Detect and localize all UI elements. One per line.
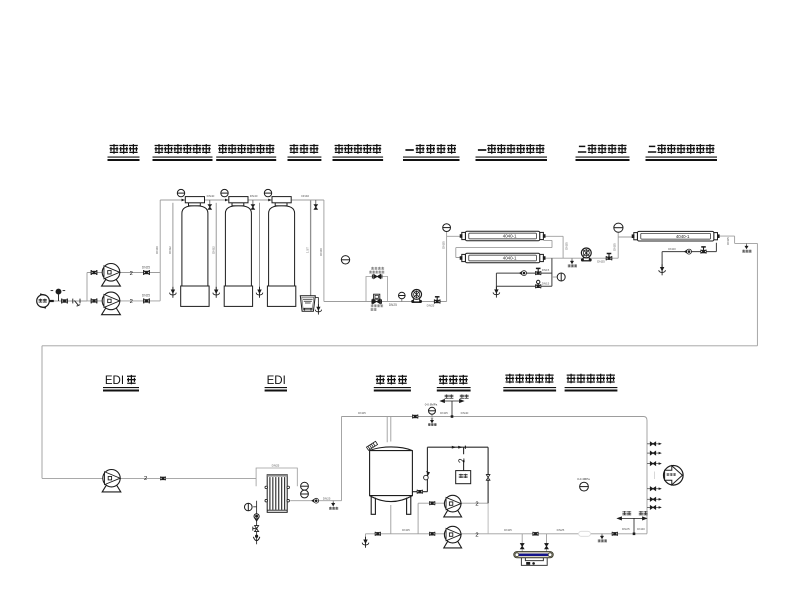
valve ozone loop right: [486, 475, 490, 481]
valve pump B suction: [91, 298, 98, 303]
label 精密过滤器: [335, 144, 344, 154]
svg-text:2: 2: [144, 476, 147, 482]
svg-text:DN40: DN40: [155, 246, 159, 254]
svg-text:DN25: DN25: [557, 528, 565, 532]
wire long return line to EDI: [42, 346, 757, 479]
sample point after UV: [601, 534, 603, 536]
junction welded/pressed 1: [451, 415, 454, 418]
pump P6 纯水泵 A: [444, 495, 462, 517]
use point symbol 用水点: [664, 466, 684, 486]
EDI gauges right pair: [301, 482, 309, 490]
pump P5 EDI泵: [102, 470, 121, 492]
svg-text:4040-1: 4040-1: [676, 234, 690, 239]
gauge RO1 feed: [443, 224, 451, 232]
pump P7 纯水泵 B: [444, 526, 462, 548]
valve P3 discharge: [435, 297, 440, 302]
svg-text:EDI: EDI: [105, 375, 124, 387]
svg-text:DN25: DN25: [427, 303, 435, 307]
svg-text:DN25: DN25: [389, 303, 397, 307]
link dash to use point: [654, 472, 656, 480]
label 纯水泵: [439, 375, 448, 385]
label 一级反渗透装置: [478, 149, 486, 151]
wire gauge stub RO1 concentrate: [552, 276, 557, 278]
label 二级反渗透装置: [648, 146, 656, 152]
sample point EDI product: [312, 498, 319, 503]
wire UV risers: [522, 534, 546, 552]
svg-text:DN40: DN40: [301, 194, 309, 198]
salt tank of softener: [300, 296, 315, 311]
svg-text:DN40: DN40: [250, 194, 258, 198]
svg-text:DN25: DN25: [622, 527, 630, 531]
flow arrow into 多介质过滤器 tank T1: [182, 199, 185, 202]
stub valve between T1-T2: [209, 200, 211, 205]
wire EDI product line: [290, 417, 341, 501]
UV sterilizer 紫外杀菌器: [514, 552, 553, 558]
svg-text:DN25: DN25: [597, 260, 605, 264]
wire RO1 vessel A permeate: [544, 236, 564, 258]
wire pump suction cross: [418, 503, 445, 534]
sample point RO2 product: [746, 243, 748, 245]
ozone injection marks: [452, 446, 463, 449]
valve tank outlet: [417, 490, 423, 494]
sample point on RO1 product: [571, 258, 573, 260]
EDI drain arrow: [253, 535, 259, 540]
pump P1 原水泵 A: [102, 264, 121, 287]
wire softener downcomer: [323, 200, 325, 302]
EDI drain needle valve: [253, 526, 259, 532]
svg-text:DN25: DN25: [323, 497, 331, 501]
wire tank top supply/return header: [342, 417, 648, 534]
valve between UV risers: [532, 532, 538, 536]
wire RO1 product line to HP pump 2: [544, 257, 619, 259]
wire riser to filters: [159, 200, 161, 301]
svg-text:DN25: DN25: [442, 241, 446, 249]
wire pump branch B: [87, 300, 160, 302]
多介质过滤器 tank T1: [181, 197, 209, 307]
gauge RO2 feed: [614, 223, 623, 232]
svg-text:DN25: DN25: [504, 528, 512, 532]
take-off branch 1: [647, 443, 659, 445]
pump P2 原水泵 B: [102, 292, 121, 315]
label 纯水箱: [376, 375, 385, 385]
svg-text:4040-1: 4040-1: [503, 256, 517, 261]
RO1 membrane vessel B: [460, 253, 545, 263]
label 一级高压泵: [405, 149, 413, 151]
label 微孔过滤器: [567, 374, 576, 384]
gauge EDI outlet: [253, 501, 256, 545]
UV control box: [521, 558, 547, 566]
wire brine suction: [310, 201, 312, 307]
wire filter feed header: [160, 199, 185, 201]
svg-text:DN20: DN20: [668, 247, 676, 251]
svg-text:DN25: DN25: [142, 265, 150, 269]
node raw water source: [37, 294, 50, 308]
valve on tank inlet header: [412, 415, 418, 419]
label 二级高压泵: [578, 146, 586, 152]
wire tank2-tank3 link: [248, 199, 272, 201]
dosing point: [51, 289, 66, 301]
wire RO1 feed riser: [447, 231, 462, 301]
EDI drain sample valve: [254, 514, 259, 521]
valve RO1 concentrate lower: [537, 283, 539, 286]
salt tank overflow arrow: [315, 304, 321, 314]
backwash drain tank T1: [172, 203, 174, 290]
valve UV riser right: [545, 544, 548, 549]
活性炭过滤器 tank T2: [224, 197, 252, 307]
softener bypass loop: [366, 277, 388, 302]
svg-text:0-0.6MPa: 0-0.6MPa: [425, 403, 438, 407]
pump P4 二级高压泵: [581, 248, 591, 261]
valve tank drain line: [375, 532, 381, 536]
wire RO2 concentrate drain: [662, 243, 716, 268]
gauge RO1 concentrate: [557, 273, 565, 281]
wire RO1 concentrate drain loop: [496, 258, 552, 290]
wire mid pressure line: [324, 301, 447, 303]
svg-text:2: 2: [475, 501, 478, 507]
svg-text:DN25: DN25: [358, 411, 366, 415]
stub valve between T2-T3: [252, 200, 254, 205]
gauge loop return: [580, 482, 589, 491]
take-off branch 4: [647, 488, 659, 490]
flow indicator RO2 drain: [685, 249, 692, 254]
take-off branch 2: [647, 452, 659, 454]
flow arrow into 活性炭过滤器 tank T2: [225, 199, 228, 202]
micro filter 微孔过滤器 (faint): [579, 531, 591, 536]
svg-text:DN15: DN15: [542, 281, 550, 285]
svg-text:DN25: DN25: [612, 243, 616, 251]
wire main line after microfilter: [591, 533, 647, 535]
softener control valve on line: [374, 294, 380, 299]
backwash drain tank T3: [259, 203, 261, 290]
svg-text:4040-1: 4040-1: [503, 234, 517, 239]
gauge after softener: [341, 256, 349, 264]
valve pump A suction: [91, 270, 98, 275]
svg-text:DN32: DN32: [168, 246, 172, 254]
bypass valve: [374, 274, 381, 278]
RO2 membrane vessel C: [632, 231, 719, 241]
wire tank1-tank2 link: [205, 199, 229, 201]
svg-text:2: 2: [130, 271, 133, 277]
svg-text:DN25: DN25: [565, 242, 569, 250]
stub valve after T3: [315, 200, 317, 205]
wire brine overflow: [315, 297, 318, 307]
label 原水泵: [110, 144, 119, 154]
svg-text:DN40: DN40: [461, 411, 469, 415]
svg-text:DN40: DN40: [319, 248, 323, 256]
valve pure pump A suction: [429, 501, 435, 505]
junction welded/pressed 2: [633, 533, 636, 536]
valve RO1 concentrate upper: [536, 268, 541, 273]
wire tank3 outlet: [292, 199, 324, 201]
valve P4 discharge: [607, 254, 612, 259]
pump P3 一级高压泵: [412, 290, 422, 303]
wire EDI bypass loop: [256, 468, 297, 486]
tank vent: [366, 441, 377, 450]
backwash drain tank T2: [215, 203, 217, 290]
gauge above 活性炭过滤器 tank T2: [221, 189, 228, 196]
wire RO1 vessel A concentrate loop: [456, 240, 552, 257]
gauge above 软水器 tank T3: [264, 189, 271, 196]
wire RO2 permeate out: [719, 236, 758, 243]
svg-text:DN15: DN15: [542, 268, 550, 272]
wire ozone loop: [412, 447, 488, 503]
软水器 tank T3: [267, 197, 295, 307]
wire ozone loop return vertical: [487, 503, 489, 534]
svg-text:2: 2: [130, 299, 133, 305]
svg-text:1.5T: 1.5T: [305, 247, 309, 253]
tank drain arrow: [362, 537, 369, 548]
valve EDI feed: [160, 477, 166, 481]
wire EDI feed line: [42, 477, 256, 479]
tank 纯水箱: [370, 447, 413, 514]
ball valve ozone loop: [424, 475, 429, 480]
take-off branch 5: [647, 498, 659, 500]
wire pure pump A discharge: [460, 502, 488, 504]
valve RO2 concentrate: [701, 247, 706, 252]
svg-text:DN25: DN25: [142, 294, 150, 298]
flow arrow into 软水器 tank T3: [268, 199, 271, 202]
ozone generator box: [456, 471, 471, 484]
gauge before HP pump1: [401, 299, 403, 302]
label 紫外杀菌器: [505, 374, 514, 384]
wire raw water inlet line: [49, 300, 87, 302]
svg-text:2: 2: [475, 532, 478, 538]
EDI module: [267, 475, 287, 513]
wire tank inlet drop: [387, 417, 391, 443]
take-off branch 6: [647, 506, 659, 508]
svg-text:EDI: EDI: [267, 375, 286, 387]
RO2 drain arrow: [659, 264, 666, 275]
svg-text:DN40: DN40: [637, 527, 645, 531]
wire RO2 feed riser: [618, 232, 633, 258]
valve pure pump B suction: [429, 532, 435, 536]
gauge on header: [431, 414, 433, 416]
svg-text:0-0.4MPa: 0-0.4MPa: [577, 477, 590, 481]
svg-text:DN25: DN25: [440, 411, 448, 415]
svg-text:DN25: DN25: [726, 237, 730, 245]
flow indicator RO1 drain: [520, 271, 527, 276]
label 活性炭过滤器: [218, 144, 227, 154]
wire pump branch A: [87, 273, 160, 301]
valve before loop riser: [612, 532, 618, 536]
EDI side ports: [265, 486, 268, 489]
wire tank bottom outlet: [366, 505, 579, 540]
svg-text:DN25: DN25: [402, 528, 410, 532]
label 多介质过滤器: [155, 144, 164, 154]
svg-text:DN32: DN32: [211, 246, 215, 254]
Y-strainer: [73, 299, 80, 307]
svg-text:DN40: DN40: [207, 194, 215, 198]
label 软水器: [290, 144, 299, 154]
svg-text:DN25: DN25: [272, 464, 280, 468]
valve UV riser left: [521, 544, 524, 549]
RO1 drain arrow: [493, 287, 500, 298]
RO1 membrane vessel A: [460, 231, 545, 241]
wire RO2 permeate long drop: [756, 243, 758, 345]
gauge above 多介质过滤器 tank T1: [177, 189, 184, 196]
take-off branch 3: [647, 463, 659, 465]
valve V1 inlet: [61, 299, 68, 304]
